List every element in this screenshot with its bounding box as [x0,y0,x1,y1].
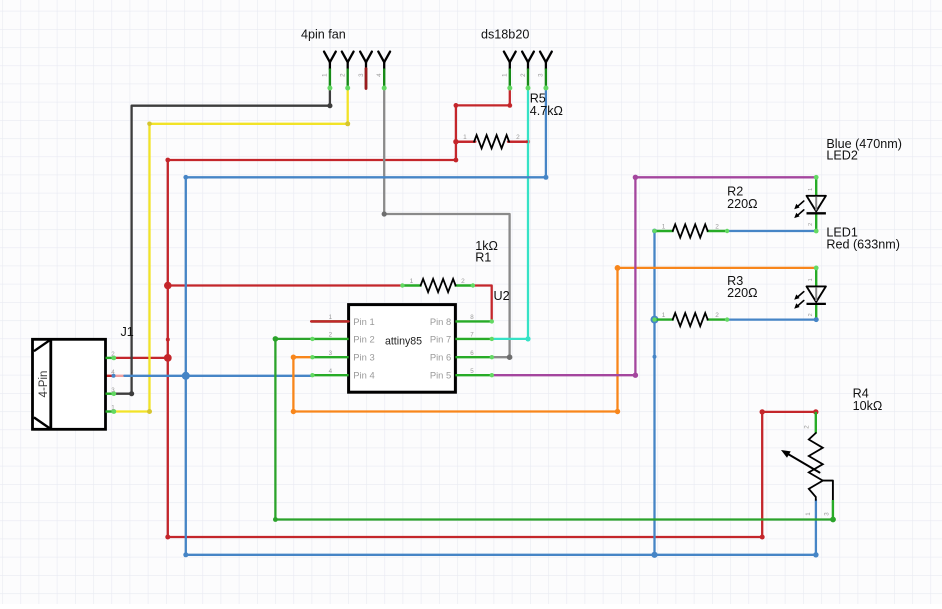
svg-text:1: 1 [322,73,329,77]
svg-text:ds18b20: ds18b20 [481,28,529,42]
svg-text:2: 2 [111,351,115,358]
header fan pin 3 [358,52,372,88]
svg-text:4: 4 [376,73,383,77]
svg-text:1: 1 [662,312,666,319]
svg-text:Pin 6: Pin 6 [430,352,451,363]
header fan pin 2 [340,52,354,91]
IC U2 attiny85 [310,305,494,393]
wire blue: R2/R3 pin1 vertical [653,231,655,555]
svg-text:1: 1 [111,405,115,412]
svg-text:4pin fan: 4pin fan [301,28,346,42]
svg-text:2: 2 [715,312,719,319]
svg-text:3: 3 [824,512,831,516]
wire red: J1 pin2 to red bus [114,357,168,359]
svg-text:Pin 4: Pin 4 [353,370,374,381]
svg-text:LED2: LED2 [826,149,858,163]
svg-text:4-Pin: 4-Pin [38,371,50,398]
svg-text:Pin 2: Pin 2 [353,333,374,344]
svg-text:1: 1 [329,314,333,321]
resistor R5 4.7k [456,134,528,148]
svg-text:3: 3 [329,350,333,357]
svg-text:Pin 1: Pin 1 [353,316,374,327]
wire red: R5 pin1 leg overlay [456,140,475,142]
svg-text:2: 2 [715,223,719,230]
svg-text:1: 1 [463,134,467,141]
svg-text:Pin 5: Pin 5 [430,370,451,381]
wire green: U2 pin2 to R4 pin3 [275,339,833,520]
svg-text:R1: R1 [475,250,491,264]
wire red: ds18b20 pin1 down to corner [456,88,510,160]
wire blue: J1 pin4 to U2 pin4 [124,375,311,377]
svg-text:2: 2 [461,278,465,285]
header fan pin 4 [376,52,390,91]
svg-text:3: 3 [538,73,545,77]
svg-text:J1: J1 [121,325,134,339]
junction red dots [507,103,512,108]
svg-text:1: 1 [808,188,814,191]
wire red: R5 pin2 leg overlay [508,140,528,142]
svg-text:5: 5 [470,368,474,375]
svg-text:1: 1 [805,512,812,516]
wire red: R1 pin2 to U2 pin8 [473,286,492,322]
svg-text:2: 2 [520,73,527,77]
svg-text:220Ω: 220Ω [727,286,757,300]
header ds18b20 pin 2 [520,52,534,91]
wire dark red stub: fan pin3 [365,69,368,89]
wire orange: U2 pin3 to LED1 anode [293,268,816,412]
svg-text:2: 2 [808,313,814,316]
wire dark red stub over fan pin3 leg [365,69,368,89]
svg-text:Pin 8: Pin 8 [430,316,451,327]
svg-text:2: 2 [808,223,814,226]
svg-text:1: 1 [410,278,414,285]
wire red: branch to R1 pin1 [168,284,403,286]
svg-text:U2: U2 [494,289,510,303]
header ds18b20 pin 3 [538,52,552,91]
svg-text:attiny85: attiny85 [385,336,422,348]
wire blue: ds18b20 pin3 long run to R4 pin1 [186,88,816,555]
svg-text:8: 8 [470,314,474,321]
wire red over U2 pin1 leg [311,320,348,322]
wire blue: R2 pin2 to LED2 cathode [727,230,816,232]
resistor R1 1k [400,278,475,292]
svg-text:6: 6 [470,350,474,357]
svg-text:2: 2 [804,425,811,429]
svg-text:1: 1 [502,73,509,77]
wire yellow: fan pin2 to J1 pin1 [114,88,348,412]
wire gray: fan pin4 to U2 pin6 [384,88,509,357]
svg-text:3: 3 [358,73,365,77]
wire purple: U2 pin5 to LED2 anode [493,177,816,375]
svg-text:220Ω: 220Ω [727,197,757,211]
wire cyan: ds18b20 pin2 / R5 pin2 to U2 pin7 [493,88,528,339]
wire blue: R3 pin2 to LED1 cathode [727,318,816,320]
svg-text:Red (633nm): Red (633nm) [826,238,900,252]
svg-text:4.7kΩ: 4.7kΩ [530,104,563,118]
svg-text:1: 1 [808,278,814,281]
svg-text:7: 7 [470,332,474,339]
svg-text:3: 3 [111,387,115,394]
svg-text:Pin 3: Pin 3 [353,352,374,363]
LED LED2 blue [794,175,826,234]
junction blue dots [543,175,548,180]
svg-text:1: 1 [662,223,666,230]
svg-text:4: 4 [329,368,333,375]
wire dark gray: fan pin1 to J1 pin3 [114,88,330,394]
svg-text:Pin 7: Pin 7 [430,333,451,344]
wire red: J1 pin4 short stub [103,375,113,377]
svg-text:10kΩ: 10kΩ [853,399,883,413]
wire red: U2 pin1 stub [311,320,348,322]
potentiometer R4 10k [781,412,833,520]
wire red: main run left-down-right-up to R4 pin2 [168,160,816,537]
svg-text:4: 4 [111,369,115,376]
connector J1 4-Pin [33,339,117,429]
resistor R2 220 [652,223,729,237]
LED LED1 red [794,266,826,323]
resistor R3 220 [652,312,729,326]
svg-text:2: 2 [329,332,333,339]
svg-text:2: 2 [516,134,520,141]
header ds18b20 pin 1 [502,52,516,91]
header fan pin 1 [322,52,336,91]
svg-text:2: 2 [340,73,347,77]
